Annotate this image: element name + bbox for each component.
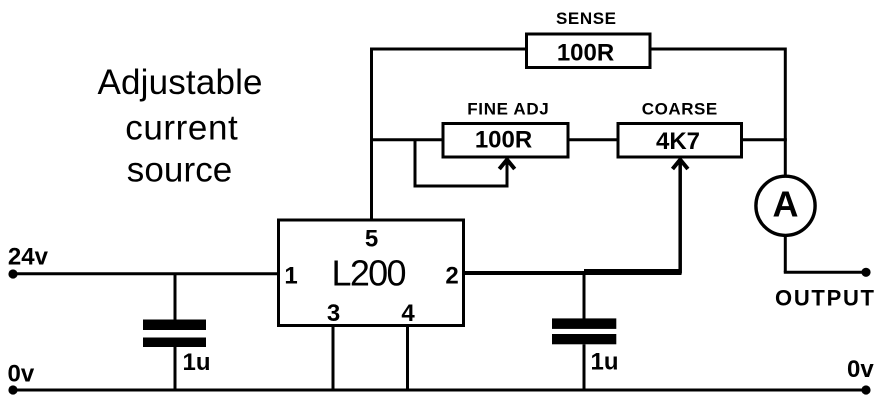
wire sense out right <box>650 48 786 51</box>
svg-text:100R: 100R <box>557 40 614 67</box>
svg-text:COARSE: COARSE <box>642 100 718 119</box>
wire R3 right to riser <box>740 138 787 141</box>
wire sense feed left <box>370 48 527 51</box>
svg-text:L200: L200 <box>332 253 407 294</box>
capacitor C1 1u <box>143 274 206 390</box>
svg-text:SENSE: SENSE <box>556 9 616 28</box>
svg-text:1: 1 <box>284 263 297 290</box>
wire pin 2 output run <box>464 271 682 275</box>
svg-text:A: A <box>773 184 799 225</box>
svg-text:4: 4 <box>401 300 415 327</box>
svg-text:1u: 1u <box>183 349 211 376</box>
node OUTPUT terminal <box>861 268 870 277</box>
wire junction run cap2 to riser <box>584 269 682 272</box>
annotation title "Adjustable current source" <box>98 63 263 190</box>
wiper arrow R3 <box>673 160 688 169</box>
wire right riser to ammeter <box>784 48 787 177</box>
wire R2 wiper loop <box>414 140 509 188</box>
potentiometer R2 FINE ADJ 100R <box>443 124 568 158</box>
node 0v right terminal <box>861 385 870 394</box>
svg-text:5: 5 <box>365 226 378 253</box>
svg-text:3: 3 <box>327 300 340 327</box>
wiper arrow R2 <box>499 160 514 169</box>
svg-text:24v: 24v <box>8 244 49 271</box>
wire R3 wiper riser <box>678 161 682 274</box>
wire pin 5 riser <box>370 48 373 222</box>
svg-text:1u: 1u <box>591 349 619 376</box>
wire 24v rail to pin 1 <box>13 272 280 275</box>
ammeter A1 <box>756 176 815 235</box>
svg-text:0v: 0v <box>8 361 35 388</box>
wire pin 3 to ground rail <box>332 325 335 390</box>
svg-text:FINE ADJ: FINE ADJ <box>467 100 549 119</box>
svg-text:0v: 0v <box>847 356 874 383</box>
potentiometer R3 COARSE 4K7 <box>618 124 742 158</box>
svg-text:4K7: 4K7 <box>656 128 700 155</box>
svg-text:OUTPUT: OUTPUT <box>775 286 875 311</box>
svg-text:Adjustable: Adjustable <box>98 63 263 102</box>
wire 0v bottom rail <box>13 389 866 392</box>
wire pin 4 to ground rail <box>406 325 409 390</box>
svg-text:current: current <box>125 109 238 148</box>
capacitor C2 1u <box>552 273 616 390</box>
svg-text:2: 2 <box>445 263 458 290</box>
svg-text:100R: 100R <box>475 127 532 154</box>
node 0v left terminal <box>8 385 17 394</box>
wire R2 to R3 <box>568 138 619 141</box>
svg-text:source: source <box>127 151 233 190</box>
resistor R1 SENSE 100R <box>527 34 651 68</box>
wire fine adj feed <box>370 138 444 141</box>
node 24v terminal <box>8 269 17 278</box>
op-amp U1 L200 regulator box <box>279 220 464 326</box>
wire ammeter to output <box>784 235 866 272</box>
